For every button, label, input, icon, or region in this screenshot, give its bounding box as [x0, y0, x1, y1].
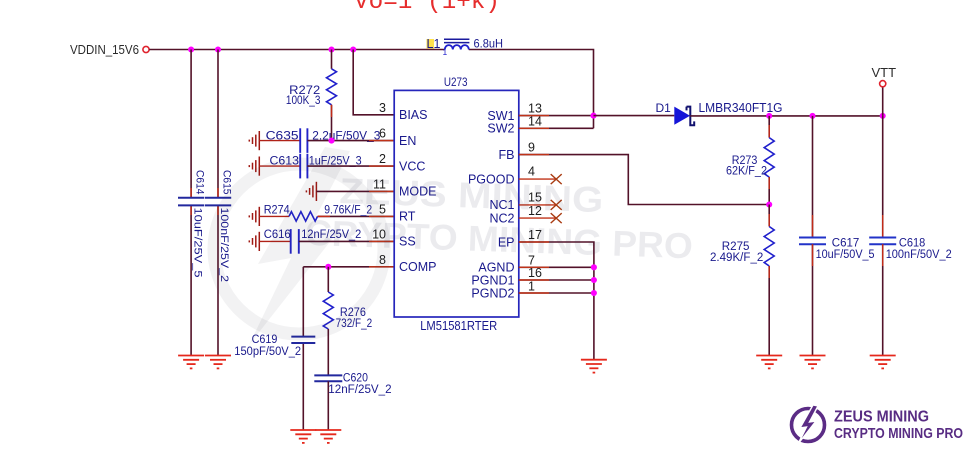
resistor R273: [726, 116, 774, 205]
svg-text:CRYPTO MINING PRO: CRYPTO MINING PRO: [834, 425, 963, 442]
svg-text:C614: C614: [194, 170, 206, 195]
svg-text:62K/F_2: 62K/F_2: [726, 166, 767, 178]
ground C617: [800, 356, 826, 369]
svg-text:U273: U273: [444, 75, 468, 89]
svg-text:1: 1: [443, 47, 448, 57]
ground (left) for MODE: [306, 182, 316, 201]
capacitor C613: [259, 154, 362, 179]
ground C615: [205, 356, 231, 369]
diode D1: [656, 101, 783, 125]
logo zeus mining: [792, 405, 964, 444]
pin NC2 no-connect: [519, 217, 556, 219]
wire BIAS riser: [353, 50, 394, 115]
junction top rail at C614: [188, 46, 194, 52]
svg-text:2: 2: [379, 152, 386, 166]
wire AGND: [519, 266, 594, 268]
svg-text:Vo=1*(1+k): Vo=1*(1+k): [354, 0, 500, 16]
ground (left) for R274: [249, 207, 259, 226]
terminal VDDIN_15V6: [143, 46, 149, 52]
svg-text:C618: C618: [899, 238, 925, 250]
ground C620: [315, 430, 341, 443]
svg-text:3: 3: [379, 101, 386, 115]
svg-text:C617: C617: [832, 238, 860, 250]
svg-text:13: 13: [528, 101, 542, 115]
capacitor C617: [799, 116, 875, 356]
svg-text:C620: C620: [343, 373, 368, 385]
junction R273 tap: [766, 113, 772, 119]
svg-text:10uF/25V_5: 10uF/25V_5: [192, 208, 204, 278]
ground (left) for C616: [249, 232, 259, 251]
capacitor C614: [178, 170, 206, 278]
svg-text:LMBR340FT1G: LMBR340FT1G: [699, 101, 783, 115]
wire FB path: [519, 155, 769, 205]
svg-text:16: 16: [528, 266, 542, 280]
pin numbers left: [372, 101, 386, 267]
svg-text:100nF/50V_2: 100nF/50V_2: [886, 249, 952, 261]
pin names right: [468, 109, 515, 300]
capacitor C619: [234, 334, 315, 358]
pin numbers right: [528, 101, 542, 293]
junction SW node: [590, 113, 596, 119]
svg-text:PGND2: PGND2: [471, 286, 514, 300]
svg-text:150pF/50V_2: 150pF/50V_2: [234, 346, 301, 358]
svg-text:L1: L1: [427, 37, 441, 51]
junction R272/EN: [328, 138, 334, 144]
pin PGOOD no-connect: [519, 178, 556, 180]
pin names left: [399, 108, 437, 274]
svg-text:1: 1: [528, 279, 535, 293]
wire SW to diode: [594, 115, 675, 117]
wire VDDIN top rail: [149, 49, 445, 51]
ground (left) for C613: [249, 157, 259, 176]
svg-text:LM51581RTER: LM51581RTER: [420, 319, 497, 333]
wire PGND2: [519, 292, 594, 294]
resistor R275: [710, 205, 774, 356]
resistor R276: [323, 267, 372, 375]
pin NC1 no-connect: [519, 204, 556, 206]
wire COMP row: [303, 266, 394, 268]
ground EP: [581, 360, 607, 373]
ground R275: [756, 356, 782, 369]
wire C619 branch: [302, 267, 304, 336]
svg-text:BIAS: BIAS: [399, 108, 428, 122]
capacitor C618: [869, 116, 952, 356]
watermark logo circle: [214, 164, 384, 334]
capacitor C620: [314, 373, 391, 431]
watermark text: [304, 169, 695, 266]
watermark logo bolt: [249, 147, 350, 345]
svg-text:6: 6: [379, 127, 386, 141]
wire top rail after L1: [469, 50, 594, 129]
svg-text:6.8uH: 6.8uH: [474, 37, 504, 51]
inductor L1: [427, 37, 504, 58]
terminal VTT: [882, 87, 884, 116]
svg-text:9: 9: [528, 140, 535, 154]
wire SW2: [519, 127, 594, 129]
wire MODE row: [316, 190, 394, 192]
wire C614 branch: [190, 50, 192, 198]
svg-text:14: 14: [528, 115, 542, 129]
svg-text:VTT: VTT: [872, 65, 897, 80]
resistor R272: [286, 50, 337, 141]
wire diode to VTT rail: [690, 115, 882, 117]
junction VTT corner: [880, 113, 886, 119]
svg-text:10uF/50V_5: 10uF/50V_5: [816, 249, 875, 261]
capacitor C635: [259, 128, 380, 153]
junction top rail at R272: [328, 46, 334, 52]
junction C617 tap: [809, 113, 815, 119]
svg-text:C635: C635: [266, 129, 299, 143]
wire SS row: [299, 240, 394, 242]
wire SW1: [519, 115, 594, 117]
junction COMP/R276: [325, 264, 331, 270]
svg-text:100K_3: 100K_3: [286, 95, 321, 107]
wire VCC row: [307, 165, 394, 167]
wire EP: [519, 242, 594, 360]
svg-text:2.49K/F_2: 2.49K/F_2: [710, 252, 763, 264]
junction FB/R273/R275: [766, 201, 772, 207]
op IC U273 box: [394, 90, 519, 317]
ground (left) for C635: [249, 131, 259, 150]
svg-text:12nF/25V_2: 12nF/25V_2: [328, 384, 391, 396]
svg-text:PGND1: PGND1: [471, 273, 514, 287]
svg-text:VDDIN_15V6: VDDIN_15V6: [70, 43, 139, 57]
wire EN row: [307, 140, 394, 142]
junction top rail at BIAS riser: [350, 46, 356, 52]
capacitor C615: [205, 170, 232, 282]
capacitor C616: [259, 229, 361, 254]
svg-text:FB: FB: [499, 148, 515, 162]
svg-text:EN: EN: [399, 134, 416, 148]
svg-text:D1: D1: [656, 101, 672, 115]
ground C614: [178, 356, 204, 369]
svg-text:ZEUS MINING: ZEUS MINING: [834, 409, 929, 426]
svg-text:COMP: COMP: [399, 260, 437, 274]
ground C619: [290, 430, 316, 443]
wire C615 branch: [217, 50, 219, 198]
resistor R274: [259, 205, 394, 221]
junction top rail at C615: [215, 46, 221, 52]
ground C618: [870, 356, 896, 369]
svg-text:SW2: SW2: [487, 122, 514, 136]
wire PGND1: [519, 279, 594, 281]
